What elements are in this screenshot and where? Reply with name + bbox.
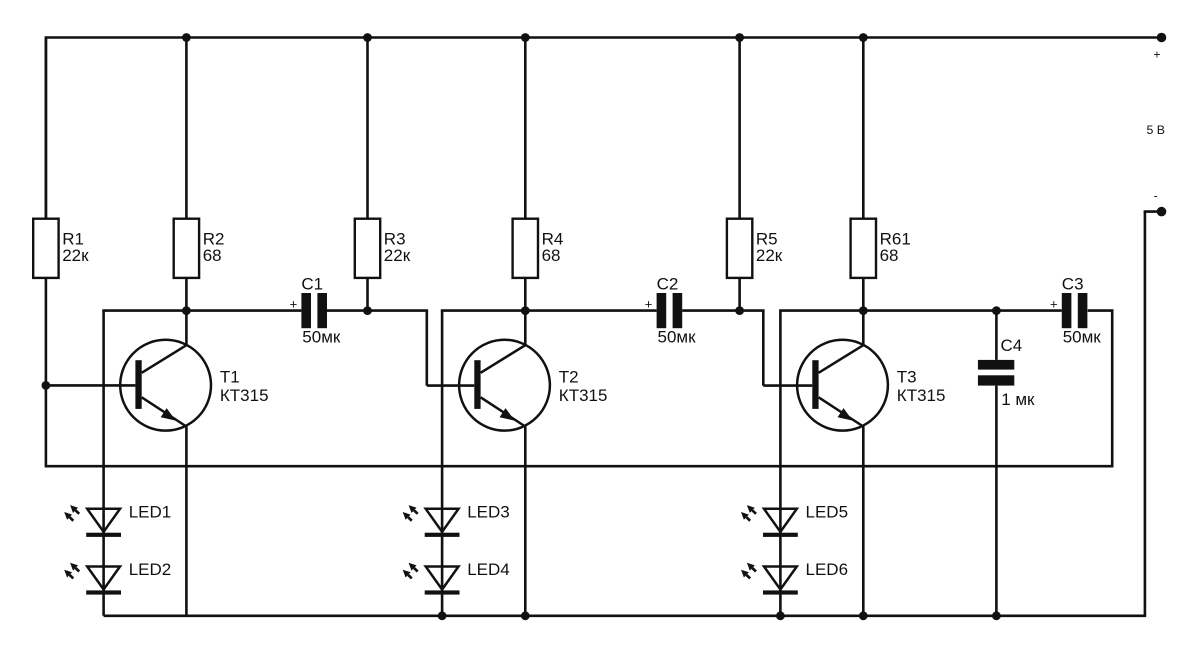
resistor R3 22к <box>355 38 411 311</box>
svg-text:50мк: 50мк <box>658 328 697 347</box>
svg-text:68: 68 <box>203 246 222 265</box>
resistor R5 22к <box>727 38 783 311</box>
svg-text:LED2: LED2 <box>129 560 172 579</box>
node: C4 top junction <box>992 306 1001 315</box>
svg-text:+: + <box>1050 297 1058 312</box>
svg-text:LED3: LED3 <box>467 503 510 522</box>
transistor T2 КТ315 <box>459 340 607 616</box>
wire: R1 bottom leg down to feedback line <box>45 278 48 468</box>
led LED6 <box>741 560 848 594</box>
node: R3 top rail junction <box>363 33 372 42</box>
wire: LED5 chain to T3 collector to C3 <box>779 309 1062 312</box>
wire: T2 base horizontal <box>427 384 475 387</box>
resistor R4 68 <box>513 38 564 347</box>
terminal: + supply dot <box>1157 33 1167 43</box>
node A: T1 base junction <box>42 381 51 390</box>
wire: feedback line (C3 to T1 base) <box>46 465 1112 468</box>
wire: LED1 chain to T1 collector to C1 <box>102 309 301 312</box>
svg-text:LED6: LED6 <box>806 560 849 579</box>
capacitor C2 50мк <box>645 275 696 347</box>
led LED1 <box>64 503 171 537</box>
svg-text:LED5: LED5 <box>806 503 849 522</box>
node: LED4 chain bottom junction <box>438 611 447 620</box>
svg-text:T2: T2 <box>559 367 579 386</box>
wire: T3 base drop <box>762 311 765 386</box>
resistor R2 68 <box>174 38 225 347</box>
svg-text:LED4: LED4 <box>467 560 510 579</box>
led LED2 <box>64 560 171 594</box>
wire: LED3/LED4 chain vertical <box>441 311 444 616</box>
wire: T1 base wire <box>46 384 135 387</box>
node: T3 collector junction <box>859 306 868 315</box>
wire: +5V top rail <box>45 36 1162 39</box>
node: R5 top rail junction <box>735 33 744 42</box>
led LED5 <box>741 503 848 537</box>
svg-text:5 В: 5 В <box>1147 123 1165 137</box>
svg-text:C2: C2 <box>657 275 679 294</box>
node: R3 bottom junction <box>363 306 372 315</box>
svg-text:+: + <box>1153 48 1160 62</box>
wire: LED1/LED2 chain vertical <box>102 311 105 616</box>
svg-text:T3: T3 <box>897 367 917 386</box>
svg-text:КТ315: КТ315 <box>559 386 608 405</box>
wire: LED3 chain to T2 collector to C2 <box>441 309 657 312</box>
wire: minus rail right vertical <box>1144 212 1147 616</box>
svg-text:22к: 22к <box>62 246 89 265</box>
wire: T3 base horizontal <box>763 384 812 387</box>
terminal: - supply dot <box>1157 207 1167 217</box>
wire: feedback right vertical <box>1111 311 1114 468</box>
svg-text:-: - <box>1154 189 1158 203</box>
svg-text:C4: C4 <box>1001 336 1023 355</box>
svg-text:50мк: 50мк <box>1063 328 1102 347</box>
svg-text:22к: 22к <box>756 246 783 265</box>
wire: T2 base drop <box>425 311 428 386</box>
svg-text:+: + <box>645 297 653 312</box>
led LED3 <box>403 503 510 537</box>
transistor T1 КТ315 <box>120 340 268 616</box>
wire: C2 to T3 base run <box>682 309 764 312</box>
wire: C1 to T2 base run <box>327 309 428 312</box>
wire: minus terminal stub <box>1144 210 1162 213</box>
capacitor C3 50мк <box>1050 275 1101 347</box>
node: LED6 chain bottom junction <box>776 611 785 620</box>
node: T2 emitter bottom junction <box>521 611 530 620</box>
transistor T3 КТ315 <box>797 340 945 616</box>
node: T1 collector junction <box>182 306 191 315</box>
node: R4 top rail junction <box>521 33 530 42</box>
svg-text:+: + <box>290 297 298 312</box>
svg-text:68: 68 <box>880 246 899 265</box>
svg-text:LED1: LED1 <box>129 503 172 522</box>
node: C4 bottom junction <box>992 611 1001 620</box>
node: R61 top rail junction <box>859 33 868 42</box>
capacitor C1 50мк <box>290 275 341 347</box>
svg-text:22к: 22к <box>384 246 411 265</box>
node: T2 collector junction <box>521 306 530 315</box>
wire: bottom minus rail <box>104 614 1147 617</box>
node: T3 emitter bottom junction <box>859 611 868 620</box>
node: R5 bottom junction <box>735 306 744 315</box>
svg-text:68: 68 <box>542 246 561 265</box>
svg-text:КТ315: КТ315 <box>220 386 269 405</box>
svg-text:C3: C3 <box>1062 275 1084 294</box>
resistor R1 22к <box>33 38 89 278</box>
wire: left vertical (R1 leg from top rail) <box>45 38 48 219</box>
led LED4 <box>403 560 510 594</box>
svg-text:1 мк: 1 мк <box>1001 390 1035 409</box>
svg-text:КТ315: КТ315 <box>897 386 946 405</box>
wire: C3 to feedback corner <box>1088 309 1114 312</box>
wire: LED5/LED6 chain vertical <box>779 311 782 616</box>
svg-text:T1: T1 <box>220 367 240 386</box>
resistor R61 68 <box>851 38 911 347</box>
node: R2 top rail junction <box>182 33 191 42</box>
svg-text:C1: C1 <box>301 275 323 294</box>
svg-text:50мк: 50мк <box>302 328 341 347</box>
capacitor C4 1мк <box>978 311 1035 616</box>
